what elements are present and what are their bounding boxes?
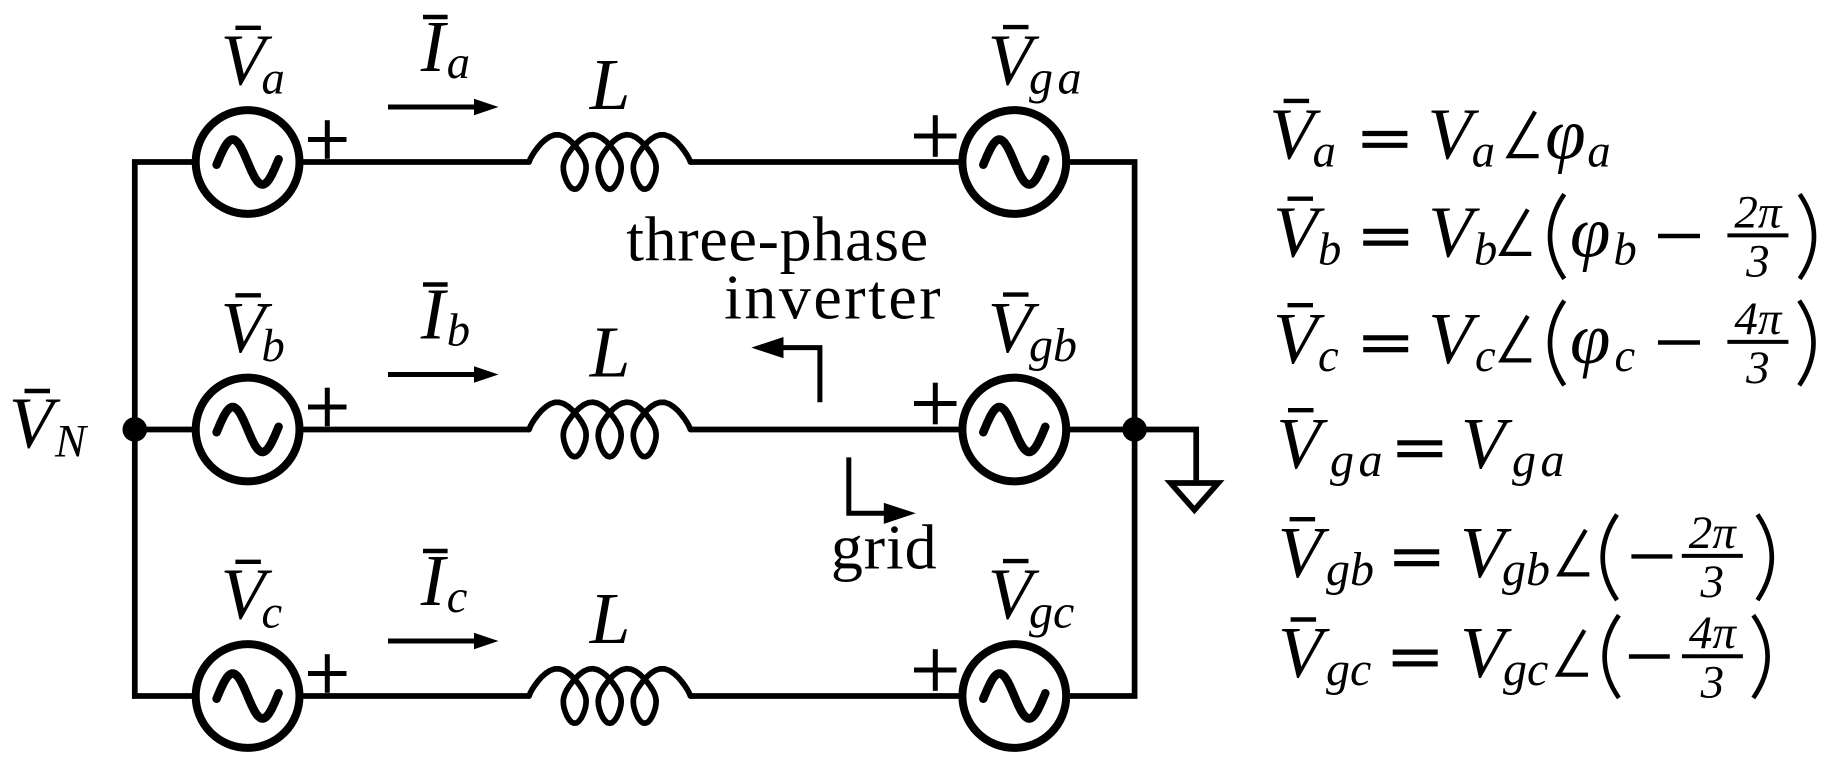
wire: phase-b left segment [135,427,529,433]
svg-text:ga: ga [1512,434,1569,487]
plus sign of source Va [308,137,347,142]
svg-text:V: V [1461,403,1513,484]
svg-text:b: b [1474,224,1497,275]
plus sign of source Vgb [914,401,957,406]
svg-text:b: b [1614,224,1637,275]
svg-text:V: V [9,382,61,463]
inverter arrow (points left toward inverter) [782,348,820,403]
voltage source Va (ac source circle) [196,110,300,214]
voltage source Vgb (grid ac source circle) [962,378,1066,482]
wire: phase-a right segment + right bus + phase-c right segment [690,162,1134,696]
equation line 2: Vb = Vb angle (phi_b - 2pi/3) [1273,186,1814,287]
svg-text:gb: gb [1029,319,1077,372]
current arrow Ib [388,372,478,377]
node VN label [9,382,89,467]
svg-text:N: N [54,416,89,467]
svg-text:φ: φ [1570,298,1610,379]
voltage source Vc (ac source circle) [196,644,300,748]
right neutral junction dot [1122,417,1147,442]
voltage source Vgc (grid ac source circle) [962,644,1066,748]
voltage source Vb (ac source circle) [196,378,300,482]
svg-text:L: L [589,578,631,659]
label V-bar gc (grid voltage) [988,554,1075,639]
svg-text:gc: gc [1326,643,1371,696]
svg-text:I: I [420,540,449,621]
svg-text:3: 3 [1745,236,1770,288]
equation line 3: Vc = Vc angle (phi_c - 4pi/3) [1273,293,1813,394]
svg-text:L: L [589,311,631,392]
node VN junction dot [123,417,148,442]
svg-text:gb: gb [1326,543,1374,596]
plus sign of source Vga [914,134,957,139]
svg-text:4π: 4π [1689,607,1738,659]
svg-text:φ: φ [1545,94,1585,175]
label I-bar a (phase current) [420,6,470,89]
label V-bar b (source voltage) [221,287,285,372]
svg-text:a: a [1313,127,1336,178]
equation line 6: Vgc = Vgc angle (-4pi/3) [1278,607,1768,708]
svg-text:ga: ga [1029,52,1086,105]
svg-text:c: c [1318,331,1339,382]
svg-text:I: I [420,274,449,355]
svg-text:a: a [1472,127,1495,178]
svg-text:V: V [1278,612,1330,693]
inductor L (phase c) [529,669,690,724]
current arrow Ic [388,639,478,644]
label V-bar gb (grid voltage) [988,287,1077,372]
svg-text:3: 3 [1700,556,1725,608]
svg-text:3: 3 [1745,342,1770,394]
svg-text:V: V [1428,298,1480,379]
svg-text:V: V [1428,191,1480,272]
svg-text:c: c [447,572,468,623]
wire: phase-b right segment [690,427,1134,433]
equation line 4: Vga = Vga [1276,403,1569,487]
svg-text:gb: gb [1502,543,1550,596]
svg-text:a: a [262,54,285,105]
svg-text:3: 3 [1700,657,1725,709]
label I-bar c (phase current) [420,540,468,623]
svg-text:a: a [1587,127,1610,178]
current arrow Ia [388,105,478,110]
voltage source Vga (grid ac source circle) [962,110,1066,214]
svg-text:c: c [262,588,283,639]
svg-text:V: V [1278,512,1330,593]
inductor L (phase a) [529,135,690,190]
inductor L (phase b) [529,402,690,457]
svg-text:c: c [1615,331,1636,382]
svg-text:a: a [447,38,470,89]
svg-text:L: L [589,44,631,125]
plus sign of source Vc [308,671,347,676]
svg-text:b: b [447,306,470,357]
svg-text:gc: gc [1029,586,1074,639]
svg-text:b: b [262,321,285,372]
svg-text:inverter: inverter [724,262,943,333]
plus sign of source Vgc [914,668,957,673]
svg-text:grid: grid [831,512,938,583]
svg-text:2π: 2π [1734,186,1783,238]
grid arrow (points right toward grid) [849,457,885,513]
svg-text:φ: φ [1570,191,1610,272]
svg-text:gc: gc [1503,643,1548,696]
wire: ground stub [1135,430,1197,481]
label V-bar a (source voltage) [221,20,285,105]
svg-text:b: b [1318,224,1341,275]
svg-text:V: V [1276,403,1328,484]
wire: phase-a left segment + left bus + phase-c left segment [135,162,529,696]
svg-text:I: I [420,6,449,87]
equation line 5: Vgb = Vgb angle (-2pi/3) [1278,507,1772,608]
svg-text:c: c [1475,331,1496,382]
svg-text:4π: 4π [1734,293,1783,345]
label I-bar b (phase current) [420,274,470,357]
svg-text:ga: ga [1330,434,1387,487]
plus sign of source Vb [308,405,347,410]
ground symbol [1171,483,1219,510]
equation line 1: Va = Va angle phi_a [1269,94,1610,178]
label V-bar c (source voltage) [221,554,283,639]
label V-bar ga (grid voltage) [988,20,1086,105]
svg-text:2π: 2π [1689,507,1738,559]
